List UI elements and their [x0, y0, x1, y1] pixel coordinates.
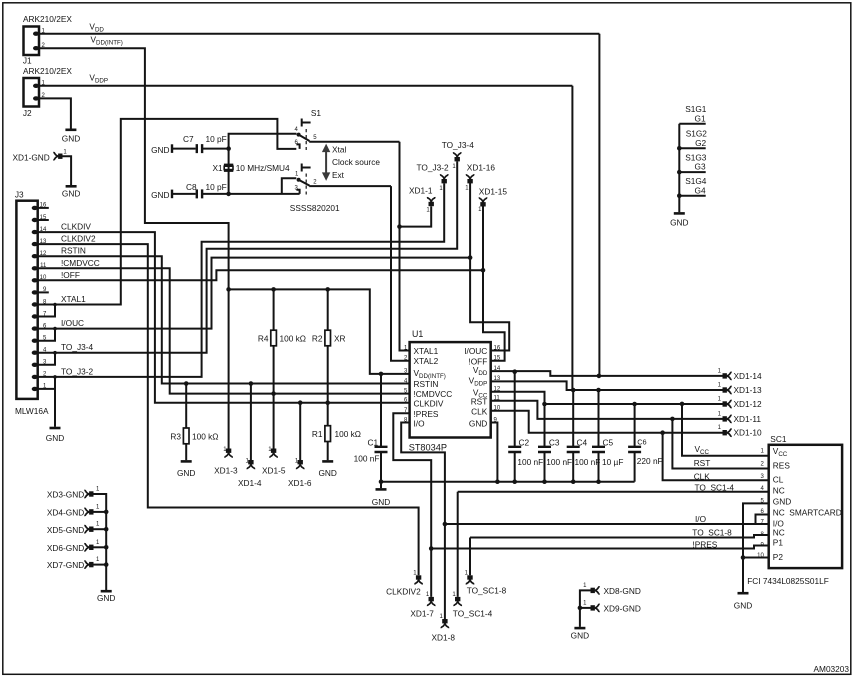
svg-text:100 nF: 100 nF: [546, 457, 572, 467]
svg-text:XD1-10: XD1-10: [734, 428, 763, 438]
svg-text:P1: P1: [773, 538, 784, 548]
svg-text:I/O: I/O: [695, 514, 707, 524]
svg-text:NC: NC: [773, 528, 785, 538]
svg-text:10 MHz/SMU4: 10 MHz/SMU4: [236, 163, 290, 173]
svg-text:I/O: I/O: [414, 418, 426, 428]
svg-text:J2: J2: [23, 108, 32, 118]
svg-text:13: 13: [40, 239, 47, 245]
svg-text:XD1-4: XD1-4: [238, 478, 262, 488]
svg-text:XD1-16: XD1-16: [467, 163, 496, 173]
svg-text:GND: GND: [62, 134, 80, 144]
svg-text:CLKDIV: CLKDIV: [61, 222, 91, 232]
svg-text:GND: GND: [177, 468, 195, 478]
svg-text:RST: RST: [694, 458, 711, 468]
svg-text:10: 10: [757, 553, 764, 559]
svg-text:10 pF: 10 pF: [206, 134, 227, 144]
svg-text:Clock source: Clock source: [332, 157, 380, 167]
svg-text:11: 11: [40, 263, 47, 269]
svg-text:CLK: CLK: [694, 472, 711, 482]
svg-text:XD1-14: XD1-14: [734, 371, 763, 381]
svg-text:GND: GND: [469, 418, 487, 428]
svg-text:12: 12: [40, 251, 47, 257]
svg-text:100 kΩ: 100 kΩ: [280, 334, 307, 344]
svg-text:C2: C2: [519, 437, 530, 447]
svg-text:GND: GND: [372, 497, 390, 507]
svg-text:XD5-GND: XD5-GND: [47, 525, 84, 535]
svg-text:14: 14: [494, 366, 501, 372]
svg-text:15: 15: [40, 215, 47, 221]
svg-text:X1: X1: [212, 163, 223, 173]
svg-text:J3: J3: [15, 190, 24, 200]
svg-text:CLKDIV: CLKDIV: [414, 398, 444, 408]
svg-text:XD9-GND: XD9-GND: [604, 604, 641, 614]
svg-text:TO_J3-4: TO_J3-4: [61, 342, 94, 352]
svg-text:10: 10: [40, 275, 47, 281]
svg-text:C5: C5: [603, 437, 614, 447]
svg-text:GND: GND: [97, 593, 115, 603]
svg-text:10: 10: [494, 406, 501, 412]
svg-text:XD6-GND: XD6-GND: [47, 543, 84, 553]
svg-text:100 nF: 100 nF: [517, 457, 543, 467]
svg-text:R1: R1: [312, 429, 323, 439]
svg-text:ARK210/2EX: ARK210/2EX: [23, 14, 72, 24]
svg-text:16: 16: [40, 203, 47, 209]
svg-text:ARK210/2EX: ARK210/2EX: [23, 66, 72, 76]
svg-text:C7: C7: [183, 134, 194, 144]
svg-text:TO_J3-4: TO_J3-4: [442, 140, 475, 150]
svg-text:XD1-6: XD1-6: [288, 478, 312, 488]
svg-text:XD4-GND: XD4-GND: [47, 508, 84, 518]
svg-text:16: 16: [494, 345, 501, 351]
svg-text:C6: C6: [637, 437, 646, 446]
svg-text:Ext: Ext: [332, 170, 345, 180]
svg-text:XD7-GND: XD7-GND: [47, 560, 84, 570]
svg-text:TO_J3-2: TO_J3-2: [417, 163, 450, 173]
svg-text:!OFF: !OFF: [61, 270, 80, 280]
svg-text:TO_SC1-8: TO_SC1-8: [467, 586, 507, 596]
svg-text:C4: C4: [577, 437, 588, 447]
svg-text:XD1-13: XD1-13: [734, 385, 763, 395]
svg-text:XD1-7: XD1-7: [410, 608, 434, 618]
svg-text:C3: C3: [549, 437, 560, 447]
svg-text:XD1-8: XD1-8: [432, 633, 456, 643]
svg-text:RST: RST: [471, 396, 488, 406]
svg-text:R2: R2: [312, 334, 323, 344]
svg-text:CL: CL: [773, 474, 784, 484]
svg-text:10 pF: 10 pF: [206, 182, 227, 192]
svg-text:13: 13: [494, 376, 501, 382]
svg-text:TO_SC1-8: TO_SC1-8: [692, 527, 732, 537]
svg-text:XD1-5: XD1-5: [262, 465, 286, 475]
svg-text:G3: G3: [695, 162, 706, 172]
svg-text:U1: U1: [412, 329, 423, 339]
svg-text:100 nF: 100 nF: [354, 454, 380, 464]
svg-text:15: 15: [494, 356, 501, 362]
svg-text:MLW16A: MLW16A: [15, 406, 49, 416]
svg-text:TO_SC1-4: TO_SC1-4: [695, 483, 735, 493]
svg-text:XR: XR: [334, 334, 346, 344]
svg-text:GND: GND: [151, 190, 169, 200]
svg-text:C8: C8: [186, 182, 197, 192]
svg-text:SSSS820201: SSSS820201: [290, 203, 340, 213]
svg-text:SC1: SC1: [770, 434, 787, 444]
svg-text:G1: G1: [695, 113, 706, 123]
svg-text:XD1-15: XD1-15: [479, 186, 508, 196]
svg-text:100 kΩ: 100 kΩ: [192, 432, 219, 442]
svg-text:GND: GND: [773, 497, 791, 507]
svg-text:CLKDIV2: CLKDIV2: [61, 234, 96, 244]
svg-text:TO_SC1-4: TO_SC1-4: [453, 608, 493, 618]
svg-text:10 µF: 10 µF: [602, 457, 623, 467]
svg-text:GND: GND: [318, 468, 336, 478]
svg-text:100 kΩ: 100 kΩ: [335, 429, 362, 439]
svg-text:11: 11: [494, 396, 501, 402]
svg-text:J1: J1: [23, 55, 32, 65]
svg-text:RES: RES: [773, 461, 791, 471]
svg-text:GND: GND: [151, 145, 169, 155]
svg-text:XD1-GND: XD1-GND: [12, 153, 49, 163]
svg-text:C1: C1: [368, 438, 379, 448]
svg-text:XD1-3: XD1-3: [214, 465, 238, 475]
svg-text:AM03203: AM03203: [814, 664, 850, 674]
svg-text:12: 12: [494, 387, 501, 393]
svg-text:P2: P2: [773, 552, 784, 562]
svg-text:220 nF: 220 nF: [637, 456, 663, 466]
svg-text:GND: GND: [46, 433, 64, 443]
svg-text:I/OUC: I/OUC: [464, 346, 487, 356]
svg-text:ST8034P: ST8034P: [409, 443, 447, 453]
svg-text:100 nF: 100 nF: [575, 457, 601, 467]
svg-text:14: 14: [40, 227, 47, 233]
svg-text:FCI 7434L0825S01LF: FCI 7434L0825S01LF: [747, 576, 829, 586]
svg-text:XD1-1: XD1-1: [409, 186, 433, 196]
svg-text:!PRES: !PRES: [692, 539, 717, 549]
svg-text:R3: R3: [170, 432, 181, 442]
svg-text:I/OUC: I/OUC: [61, 318, 84, 328]
svg-text:NC: NC: [773, 486, 785, 496]
svg-text:TO_J3-2: TO_J3-2: [61, 366, 94, 376]
svg-text:XD3-GND: XD3-GND: [47, 490, 84, 500]
svg-text:XD1-11: XD1-11: [734, 414, 762, 424]
svg-text:XD1-12: XD1-12: [734, 399, 763, 409]
svg-text:G2: G2: [695, 138, 706, 148]
svg-text:XD8-GND: XD8-GND: [604, 586, 641, 596]
svg-text:NC: NC: [773, 507, 785, 517]
svg-text:GND: GND: [670, 217, 688, 227]
svg-text:G4: G4: [695, 185, 706, 195]
svg-text:RSTIN: RSTIN: [414, 379, 439, 389]
svg-text:RSTIN: RSTIN: [61, 246, 86, 256]
svg-text:CLKDIV2: CLKDIV2: [386, 587, 421, 597]
svg-text:GND: GND: [734, 601, 752, 611]
svg-text:XTAL1: XTAL1: [414, 346, 439, 356]
svg-text:!CMDVCC: !CMDVCC: [61, 258, 100, 268]
svg-text:Xtal: Xtal: [332, 145, 346, 155]
svg-text:XTAL2: XTAL2: [414, 356, 439, 366]
svg-text:GND: GND: [571, 631, 589, 641]
svg-text:R4: R4: [258, 334, 269, 344]
svg-text:S1: S1: [311, 108, 322, 118]
svg-text:GND: GND: [62, 188, 80, 198]
svg-text:CLK: CLK: [471, 407, 488, 417]
svg-text:SMARTCARD: SMARTCARD: [789, 507, 841, 517]
svg-text:XTAL1: XTAL1: [61, 294, 86, 304]
